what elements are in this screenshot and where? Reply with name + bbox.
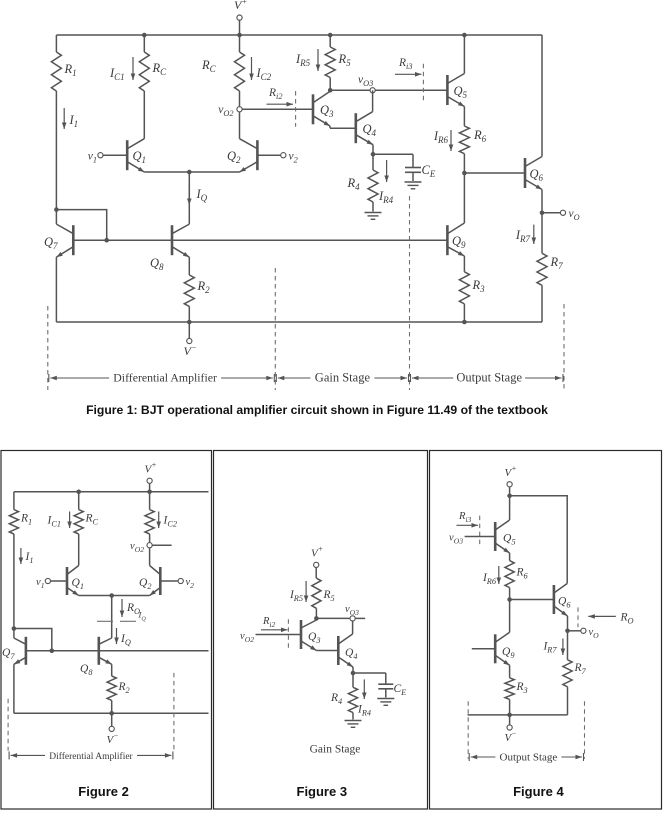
wire fig2 R1 bottom to Q7 node	[13, 534, 15, 629]
node vO terminal fig4	[581, 627, 599, 640]
table cell border Figure 2	[1, 451, 212, 810]
svg-text:Figure 4: Figure 4	[513, 784, 564, 799]
current arrow IR7	[515, 225, 536, 244]
caption Figure 3	[297, 784, 348, 799]
label RC right	[201, 58, 217, 74]
input resistance arrow Ri2 fig3	[261, 616, 288, 632]
node junction dots on bottom rail	[187, 320, 467, 325]
current arrow IR4	[378, 160, 394, 205]
node dot fig3 Q3 collector	[314, 616, 319, 621]
current arrow I1	[62, 108, 78, 129]
label Q5 fig4	[503, 533, 515, 547]
label Q8	[150, 256, 164, 272]
label Q5	[454, 84, 468, 100]
resistor RC (right)	[235, 52, 245, 91]
label R2	[197, 279, 211, 295]
ground below R4	[365, 213, 382, 220]
wire RC2 bottom to node vO2	[239, 91, 241, 106]
current arrow IC1	[109, 57, 135, 82]
wire fig4 vO3 input lead	[465, 536, 496, 538]
label Q2	[227, 149, 241, 165]
stage label fig2 Differential Amplifier	[9, 751, 173, 762]
dashed divider fig2 left	[7, 699, 9, 751]
node dot fig3 Q4 emitter	[351, 671, 356, 676]
dashed line at Ri2	[295, 91, 297, 127]
transistor Q2	[240, 139, 258, 172]
label Q6 fig4	[558, 596, 571, 610]
wire R5 bottom to vO3 node	[329, 78, 331, 91]
node vO2 terminal fig2	[130, 541, 152, 554]
current arrow IR7 fig4	[542, 639, 565, 656]
label R6	[473, 128, 487, 144]
current arrow IQ fig2	[114, 628, 131, 647]
stage label fig4 Output Stage	[469, 752, 583, 764]
current arrow IR4 fig3	[357, 679, 371, 717]
transistor Q8 fig2	[99, 637, 112, 665]
caption Figure 4	[513, 784, 564, 799]
wire vO2 to Q3 base	[242, 108, 313, 110]
label R7 fig4	[574, 662, 587, 676]
label Q6	[530, 167, 544, 183]
wire fig2 top rail	[14, 491, 209, 493]
node dot at Q7 collector tie	[54, 207, 59, 212]
wire Q7 collector up to left column node	[55, 210, 57, 225]
wire fig2 RC2 top lead	[149, 492, 151, 510]
node v2 input terminal	[281, 151, 298, 165]
wire R2 bottom to bottom rail	[188, 306, 190, 322]
node v1 input terminal	[88, 151, 103, 165]
transistor Q9 fig4	[495, 632, 509, 665]
node dot vO fig4	[565, 629, 570, 634]
wire top supply rail	[56, 34, 542, 36]
wire fig4 Q9 base stub	[472, 648, 495, 650]
node vO output terminal	[560, 208, 579, 222]
current arrow IC2 fig2	[156, 512, 177, 529]
node dot on base rail	[104, 238, 109, 243]
resistor RC fig2 left	[74, 510, 83, 534]
current arrow IC1 fig2	[47, 512, 72, 529]
wire fig2 R2 to bottom rail	[111, 700, 113, 713]
wire vO2 down to Q2 collector	[239, 112, 241, 139]
wire Q8 emitter to R2	[188, 257, 190, 275]
wire R4 top lead	[372, 154, 374, 170]
node: V+ supply terminal of Figure 1	[234, 0, 247, 20]
wire R5 top lead	[329, 35, 331, 47]
wire vO node down to R7	[541, 213, 543, 254]
wire node to Q6 base	[464, 172, 525, 174]
wire fig2 bottom rail	[14, 712, 209, 714]
current arrow IR6 fig4	[482, 566, 501, 586]
label CE	[422, 163, 436, 179]
label R1	[64, 62, 77, 78]
node dot fig2 emitter rail	[109, 593, 114, 598]
dashed line Ri3 fig4	[479, 516, 481, 545]
label Q9	[452, 234, 466, 250]
resistor R5 fig3	[312, 578, 321, 608]
wire fig4 vO down to R7	[567, 631, 569, 660]
wire fig4 R3 bottom to rail	[509, 699, 511, 715]
wire fig2 base rail	[26, 650, 209, 652]
wire fig3 vO3 line	[316, 617, 349, 619]
wire IQ tail down to Q8 collector	[188, 172, 190, 224]
wire fig2 vO2 down to Q2 collector	[149, 548, 151, 565]
transistor Q2 fig2	[150, 566, 161, 596]
wire fig2 Q7 collector to node	[13, 629, 15, 639]
current arrow IR5 fig3	[289, 581, 308, 603]
node dot fig2 base rail	[50, 649, 55, 654]
capacitor CE	[405, 168, 421, 173]
wire R4 bottom lead	[372, 202, 374, 212]
node dot at Q3 collector / R5	[328, 88, 333, 93]
wire fig4 bottom rail	[468, 714, 568, 716]
wire fig2 RC2 bottom to vO2	[149, 534, 151, 542]
node dot fig4 bottom rail	[507, 713, 512, 718]
resistor R4	[368, 170, 378, 202]
svg-text:Figure 1: BJT operational ampl: Figure 1: BJT operational amplifier circ…	[86, 403, 548, 417]
wire fig3 CE top lead	[385, 673, 387, 684]
wire bottom negative rail	[56, 321, 542, 323]
transistor Q1 fig2	[67, 566, 79, 596]
node vO3 terminal fig3	[345, 604, 359, 621]
table cell border Figure 3	[214, 451, 428, 810]
wire fig3 V+ lead	[315, 568, 317, 578]
capacitor CE fig3	[378, 684, 393, 689]
label Q8 fig2	[80, 663, 93, 677]
wire RC2 top lead	[239, 35, 241, 52]
resistor R7	[537, 253, 547, 285]
label R4 fig3	[330, 692, 342, 706]
transistor Q6	[525, 157, 542, 190]
node dot fig2 Q7 tie	[12, 626, 17, 631]
wire vO3 to Q5 base	[376, 89, 448, 91]
wire R1 bottom to Q7 collector node	[55, 91, 57, 210]
dashed divider fig2 right	[173, 673, 175, 751]
node dot at emitter rail	[187, 170, 192, 175]
label Q9 fig4	[502, 646, 515, 660]
current arrow IR5	[295, 49, 320, 71]
node V+ terminal Figure 2	[145, 461, 157, 484]
wire fig3 node to CE	[353, 672, 386, 674]
wire fig2 emitter rail	[79, 595, 150, 597]
transistor Q6 fig4	[554, 584, 568, 617]
wire vO stub	[542, 212, 560, 214]
node dot at Q4 emitter	[371, 152, 376, 157]
wire differential pair emitter rail	[144, 171, 239, 173]
transistor Q8	[172, 224, 189, 257]
label Q4	[363, 122, 377, 138]
transistor Q3 fig3	[301, 620, 317, 651]
wire Q5 emitter to R6	[463, 107, 465, 127]
label Q7 fig2	[2, 647, 15, 661]
ground below CE	[405, 182, 422, 189]
wire Q7 emitter down to bottom rail	[55, 257, 57, 322]
label Q4 fig3	[345, 647, 357, 661]
wire Q5 collector to top rail	[463, 35, 465, 74]
label R5	[338, 52, 352, 68]
resistor R1 fig2	[9, 510, 18, 534]
wire CE top lead	[412, 154, 414, 167]
current arrow IQ	[187, 184, 208, 205]
wire fig4 V- lead	[509, 715, 511, 725]
resistor R3 fig4	[505, 678, 514, 700]
wire fig3 Q3 emitter to Q4 base	[317, 650, 339, 652]
wire fig4 Q9 emitter to R3	[509, 665, 511, 678]
dashed stage divider right	[563, 304, 565, 390]
wire R1 top lead	[55, 35, 57, 52]
resistor R5	[325, 47, 335, 78]
wire fig3 CE bottom lead	[385, 689, 387, 698]
label RC fig2	[85, 513, 99, 527]
dashed cut line fig2	[97, 620, 136, 622]
resistor R2 fig2	[107, 676, 116, 700]
table cell border Figure 4	[430, 451, 662, 810]
wire fig4 R6 bottom to node	[509, 588, 511, 600]
dashed divider fig4 left	[467, 701, 469, 759]
label R3 fig4	[516, 681, 528, 695]
wire fig3 R4 bottom lead	[352, 713, 354, 720]
stage label Gain Stage	[276, 371, 408, 385]
node v2 terminal fig2	[178, 577, 194, 590]
node dot fig4 top	[507, 494, 512, 499]
wire v1 to Q1 base	[103, 154, 127, 156]
wire Q6 emitter to vO node	[541, 190, 543, 213]
node v1 terminal fig2	[36, 577, 50, 590]
resistor R6	[459, 126, 469, 154]
wire current-mirror base rail Q7-Q8-Q9	[73, 239, 447, 241]
dashed line RO fig4	[577, 607, 579, 627]
label Q3 fig3	[308, 631, 320, 645]
node V- supply terminal	[184, 338, 197, 358]
label RC left	[152, 61, 168, 77]
dashed stage divider diff/gain	[274, 268, 276, 390]
wire R7 bottom to bottom rail	[541, 285, 543, 322]
wire fig4 R7 bottom to rail	[567, 687, 569, 715]
label vO2 fig3	[240, 631, 254, 644]
resistor R2	[184, 275, 194, 306]
wire Q2 base to v2	[257, 154, 280, 156]
ground below R4 fig3	[345, 721, 362, 728]
wire fig2 RC1 top lead	[78, 492, 80, 510]
wire fig2 V+ lead	[149, 484, 151, 492]
transistor Q5 fig4	[495, 520, 509, 553]
node dots fig2 top rail	[76, 490, 152, 495]
transistor Q1	[127, 139, 144, 172]
node dot fig2 bottom rail	[109, 711, 114, 716]
current arrow IR6	[433, 129, 453, 151]
wire fig2 Q8 emitter to R2	[111, 664, 113, 676]
wire V+ lead to top rail	[239, 21, 241, 36]
label R3	[472, 278, 486, 294]
svg-text:Figure 3: Figure 3	[297, 784, 348, 799]
input resistance arrow Ri2	[267, 87, 294, 107]
node vO2 terminal	[218, 104, 242, 118]
dashed divider fig4 right	[584, 701, 586, 759]
wire fig4 Q5 emitter to R6	[509, 553, 511, 561]
label Q1	[133, 149, 147, 165]
wire fig2 v1 to Q1 base	[51, 580, 67, 582]
transistor Q4 fig3	[338, 634, 353, 667]
node V- terminal fig4	[505, 725, 517, 744]
wire CE bottom lead	[412, 172, 414, 181]
wire fig3 Q4 emitter to node	[352, 667, 354, 673]
node V+ terminal Figure 3	[311, 545, 323, 568]
node V+ terminal Figure 4	[505, 464, 517, 487]
transistor Q3	[313, 91, 330, 126]
node dot fig4 R6 bottom	[507, 597, 512, 602]
wire vO3 line left segment	[330, 89, 370, 91]
label CE fig3	[394, 683, 407, 697]
node V- terminal fig2	[107, 726, 119, 746]
wire fig4 node to Q6 base	[510, 599, 554, 601]
svg-text:Differential Amplifier: Differential Amplifier	[49, 751, 133, 762]
label R2 fig2	[118, 681, 130, 695]
wire node down to Q9 collector	[463, 173, 465, 223]
wire fig4 vO stub	[568, 630, 581, 632]
wire fig4 top rail to Q6 collector	[510, 496, 568, 584]
resistor R1	[51, 52, 61, 91]
transistor Q5	[447, 74, 464, 107]
wire fig3 vO2 input lead	[256, 634, 302, 636]
wire fig2 R1 top lead	[13, 492, 15, 510]
label R5 fig3	[323, 589, 335, 603]
text Gain Stage fig3	[310, 744, 361, 756]
wire V- lead	[188, 322, 190, 338]
wire fig3 R5 bottom to node	[315, 608, 317, 618]
transistor Q4	[356, 112, 373, 145]
svg-text:Output Stage: Output Stage	[500, 752, 558, 764]
dashed stage divider left	[47, 306, 49, 390]
label R7	[550, 255, 564, 271]
svg-text:Gain Stage: Gain Stage	[315, 371, 371, 385]
transistor Q7 (mirrored)	[56, 224, 73, 257]
input resistance arrow Ri3 fig4	[457, 511, 479, 528]
current arrow I1 fig2	[19, 548, 34, 565]
wire RC1 bottom to Q1 collector	[143, 91, 145, 139]
svg-text:Figure 2: Figure 2	[78, 784, 129, 799]
resistor R6 fig4	[505, 561, 514, 588]
resistor R7 fig4	[563, 660, 572, 687]
resistor R3	[459, 272, 469, 304]
wire RC1 top lead	[143, 35, 145, 52]
caption Figure 2	[78, 784, 129, 799]
dashed line Ri2 fig3	[287, 619, 289, 649]
label Q1 fig2	[72, 577, 84, 591]
svg-text:Gain Stage: Gain Stage	[310, 744, 361, 756]
label vO3 fig4	[449, 533, 463, 546]
label Q7	[44, 235, 58, 251]
wire R3 bottom to bottom rail	[463, 304, 465, 322]
stage label Output Stage	[411, 371, 564, 385]
wire fig2 V- lead	[111, 713, 113, 726]
svg-text:Output Stage: Output Stage	[456, 371, 522, 385]
current arrow RO at IQ fig2	[120, 599, 147, 623]
resistance arrow RO fig4	[588, 612, 633, 626]
wire fig3 vO3 stub right	[356, 617, 366, 619]
wire fig2 vO2 stub right	[153, 544, 172, 546]
label R1 fig2	[20, 513, 32, 527]
transistor Q7 fig2 (mirrored)	[14, 637, 26, 665]
input resistance arrow Ri3	[395, 57, 422, 77]
wire fig2 RC1 bottom to Q1 collector	[78, 534, 80, 566]
wire fig2 Q7 collector-base tie	[14, 629, 52, 651]
wire fig4 node down to Q9 collector	[509, 600, 511, 633]
label Q3	[320, 103, 334, 119]
wire R6 bottom to node	[463, 154, 465, 173]
label R4	[347, 176, 361, 192]
ground below CE fig3	[377, 699, 394, 706]
node dot at R6 bottom / Q6 base	[462, 171, 467, 176]
resistor RC (left)	[139, 52, 149, 91]
node vO3 terminal	[358, 74, 375, 93]
transistor Q9	[447, 223, 464, 256]
dashed stage divider gain/output	[409, 196, 411, 390]
wire fig3 R4 top lead	[352, 673, 354, 687]
wire fig2 Q2 base to v2	[160, 580, 178, 582]
current arrow IC2	[249, 57, 271, 82]
wire fig2 Q7 emitter down	[13, 664, 15, 713]
wire fig4 V+ lead	[509, 487, 511, 496]
wire Q7 collector-base tie	[56, 210, 106, 241]
resistor RC2 fig2 right	[145, 510, 154, 534]
wire top rail right end down to Q6 collector	[541, 35, 543, 157]
wire fig3 Q4 collector to vO3	[352, 621, 354, 634]
wire Q9 emitter to R3	[463, 256, 465, 272]
wire Q4 emitter node to CE	[373, 153, 413, 155]
wire fig2 tail upper segment	[111, 596, 113, 639]
wire fig4 Q6 emitter to vO	[567, 616, 569, 631]
wire Q4 emitter down to node	[372, 145, 374, 155]
caption Figure 1	[86, 403, 548, 417]
svg-text:Differential Amplifier: Differential Amplifier	[113, 371, 217, 385]
wire Q4 collector up to vO3 line	[372, 90, 374, 111]
node dot at vO	[540, 211, 545, 216]
wire fig4 V+ down to Q5 collector	[509, 496, 511, 520]
resistor R4 fig3	[348, 687, 357, 712]
stage label Differential Amplifier	[49, 371, 274, 385]
wire Q3 emitter to Q4 base	[330, 126, 356, 128]
node junction dots on top rail	[142, 33, 467, 38]
label Q2 fig2	[139, 577, 151, 591]
dashed line at Ri3	[422, 64, 424, 101]
label R6 fig4	[516, 567, 529, 581]
